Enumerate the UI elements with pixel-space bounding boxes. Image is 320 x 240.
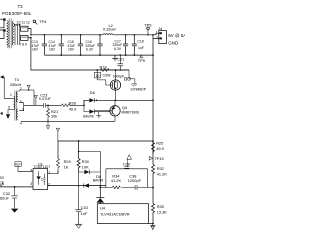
transformer T3 primary winding loops bbox=[0, 19, 4, 38]
svg-text:TLV431ACDBVR: TLV431ACDBVR bbox=[100, 211, 130, 216]
svg-text:SI7848DP: SI7848DP bbox=[131, 87, 147, 91]
transformer T3 secondary pin lines with polarity dots bbox=[15, 26, 20, 46]
T4 pin 6 wire and ground bbox=[8, 110, 14, 114]
resistor R-edge (cut at left) bbox=[0, 176, 5, 184]
svg-text:1000pF: 1000pF bbox=[113, 74, 125, 78]
U3 internal LED bbox=[37, 171, 41, 185]
resistor R28 bbox=[69, 100, 77, 111]
inductor L2 bbox=[103, 23, 116, 32]
svg-text:49.9: 49.9 bbox=[69, 107, 77, 112]
test point TP9 bbox=[140, 55, 143, 58]
compensation network box wires bbox=[100, 169, 153, 188]
shunt regulator U4 TLV431 bbox=[99, 186, 101, 198]
svg-text:POE300F-50L: POE300F-50L bbox=[2, 11, 32, 16]
capacitor C28 with net arrow bbox=[127, 155, 132, 160]
svg-text:C28: C28 bbox=[123, 161, 130, 166]
svg-text:C21: C21 bbox=[117, 57, 124, 62]
U3 internal arrows bbox=[41, 178, 43, 181]
svg-text:10K: 10K bbox=[82, 164, 89, 169]
U3 pin 1 wire to R29 bbox=[48, 171, 58, 174]
D6 lower diode bbox=[84, 100, 110, 114]
svg-text:49.9: 49.9 bbox=[156, 146, 164, 151]
resistor R18 bbox=[100, 64, 107, 69]
svg-text:6.3V: 6.3V bbox=[114, 47, 122, 51]
connector J4 bbox=[158, 26, 163, 31]
resistor R25 bbox=[156, 141, 164, 152]
dual diode D6 bbox=[90, 90, 95, 95]
svg-text:4: 4 bbox=[30, 169, 32, 173]
svg-text:0.47uF: 0.47uF bbox=[39, 96, 52, 101]
resistor R34 bbox=[111, 174, 122, 183]
net arrow near C23 bbox=[34, 95, 37, 98]
svg-text:U4: U4 bbox=[100, 205, 106, 210]
top rail VOUT bbox=[31, 33, 159, 35]
svg-text:R32: R32 bbox=[157, 166, 164, 171]
junction dots top rail bbox=[30, 34, 154, 36]
capacitor C38 bbox=[128, 174, 142, 183]
svg-text:R35: R35 bbox=[157, 204, 164, 209]
svg-text:0.5W: 0.5W bbox=[103, 73, 112, 77]
svg-text:10k: 10k bbox=[51, 114, 57, 119]
test point TP15 bbox=[149, 156, 152, 160]
svg-text:16V: 16V bbox=[68, 48, 75, 52]
svg-text:T3: T3 bbox=[18, 4, 24, 9]
junction dot R21 top bbox=[47, 104, 49, 106]
bottom rail RTN bbox=[44, 54, 153, 56]
svg-text:5: 5 bbox=[20, 100, 22, 104]
T4 right winding lower (pins 3-4) bbox=[17, 109, 18, 119]
transformer T3 primary winding arcs bbox=[7, 21, 8, 48]
junction dot node A bbox=[96, 69, 98, 71]
optocoupler U3 bbox=[33, 163, 50, 170]
transistor Q4 PNP bbox=[110, 106, 120, 116]
transformer T4 core bbox=[15, 91, 17, 121]
T4 pin 1 wire to left edge arrow bbox=[2, 77, 14, 98]
U3 pin 2 wire (feedback node) bbox=[48, 185, 106, 187]
svg-text:16V: 16V bbox=[49, 48, 56, 52]
resistor R21 bbox=[51, 109, 58, 119]
transformer T3 core bbox=[9, 19, 11, 49]
svg-text:1: 1 bbox=[156, 30, 158, 34]
transformer T3 primary polarity dots bbox=[3, 18, 5, 31]
svg-text:TP5: TP5 bbox=[144, 22, 151, 27]
svg-text:C18: C18 bbox=[137, 40, 143, 44]
svg-text:6.3V: 6.3V bbox=[86, 48, 94, 52]
ground symbol on bottom rail bbox=[112, 55, 117, 58]
junction dot R30 top bbox=[78, 140, 80, 142]
svg-text:2: 2 bbox=[20, 87, 22, 91]
svg-text:GND: GND bbox=[168, 41, 179, 46]
R21 ground arrow bbox=[46, 121, 49, 129]
junction dot D6 branch bbox=[83, 104, 85, 106]
U3 pin 4 wire to REF flag bbox=[18, 166, 33, 171]
svg-text:330uH: 330uH bbox=[10, 82, 22, 87]
svg-text:1200pF: 1200pF bbox=[128, 178, 142, 183]
capacitor C15 bbox=[68, 40, 76, 52]
svg-text:R29: R29 bbox=[64, 159, 71, 164]
svg-text:4: 4 bbox=[20, 121, 22, 125]
svg-text:Q3: Q3 bbox=[132, 81, 137, 86]
D6 upper diode bbox=[84, 98, 97, 105]
ground under R35 bbox=[150, 224, 156, 230]
T4 pin labels bbox=[8, 87, 24, 125]
svg-text:0.33uH: 0.33uH bbox=[103, 27, 116, 32]
Q4 collector wire to T4 pin 4 bbox=[21, 120, 115, 122]
T3 pin group box upper (pins 10-12) bbox=[21, 26, 28, 31]
svg-text:7 8 9: 7 8 9 bbox=[19, 43, 27, 47]
capacitor C13 bbox=[32, 40, 40, 52]
capacitor C21 bbox=[117, 57, 124, 62]
transistor Q3 MOSFET bbox=[110, 80, 120, 90]
resistor R32 bbox=[157, 166, 168, 177]
svg-text:16V: 16V bbox=[32, 48, 39, 52]
resistor R30 bbox=[82, 159, 90, 170]
ground under D6/Q4 base bbox=[96, 112, 101, 116]
capacitor C18 bbox=[137, 40, 143, 51]
transformer T4 labels bbox=[10, 77, 22, 87]
test point TP5 bbox=[144, 22, 151, 27]
U3 internal phototransistor bbox=[43, 174, 45, 185]
wire R32 to R35 bbox=[152, 188, 154, 204]
svg-text:5V @ 5A: 5V @ 5A bbox=[168, 33, 185, 38]
R18 value box bbox=[94, 72, 100, 78]
svg-text:1K: 1K bbox=[64, 164, 69, 169]
svg-text:13.3K: 13.3K bbox=[157, 209, 168, 214]
capacitor C33 branch bbox=[81, 205, 88, 216]
svg-text:C33: C33 bbox=[81, 205, 88, 210]
svg-text:41.2K: 41.2K bbox=[157, 171, 168, 176]
T4 pin 2 net bbox=[19, 90, 34, 105]
U3 pin 3 wire to left edge bbox=[0, 186, 33, 188]
T3 pins 7 8 9 label bbox=[19, 43, 27, 47]
dual diode D8 bbox=[93, 174, 103, 183]
snubber wire end / Q3 label leader bbox=[129, 70, 135, 84]
T3 pin group box lower (pins 7-9) bbox=[21, 35, 28, 40]
svg-text:10 11 12: 10 11 12 bbox=[17, 21, 30, 25]
capacitor C17 bbox=[113, 39, 123, 51]
feedback sense line (right column) bbox=[152, 35, 154, 165]
bias net wire to R29/R25 bbox=[58, 140, 153, 142]
junction dot C32 bbox=[14, 186, 16, 188]
svg-text:Q4: Q4 bbox=[122, 105, 128, 110]
svg-text:R25: R25 bbox=[156, 141, 163, 146]
U4 anode wire to ground bbox=[149, 223, 153, 225]
T4 right winding upper (pins 2-5) bbox=[17, 92, 18, 102]
C32 ground arrow bbox=[11, 209, 18, 213]
svg-text:1: 1 bbox=[48, 171, 50, 175]
svg-text:6: 6 bbox=[8, 106, 10, 110]
svg-text:82uF: 82uF bbox=[0, 196, 9, 201]
svg-text:TP4: TP4 bbox=[39, 19, 47, 24]
svg-text:BAV99: BAV99 bbox=[93, 179, 103, 183]
svg-text:MMBT3906: MMBT3906 bbox=[122, 111, 140, 115]
Q3 source / Q4 emitter node wire bbox=[97, 99, 153, 101]
svg-text:TP9: TP9 bbox=[138, 58, 145, 63]
T4 pins 5/3 bus bbox=[19, 103, 43, 111]
svg-text:R30: R30 bbox=[82, 159, 90, 164]
svg-text:TP15: TP15 bbox=[154, 156, 163, 161]
svg-text:R18: R18 bbox=[100, 64, 107, 69]
REF net flag bbox=[15, 162, 21, 167]
capacitor C16 bbox=[86, 40, 96, 52]
capacitor C23 bbox=[39, 92, 52, 101]
svg-text:REF: REF bbox=[15, 162, 21, 166]
test point TP4 bbox=[33, 20, 36, 23]
transformer T3 secondary winding arcs bbox=[12, 21, 13, 45]
U4 box bbox=[97, 204, 148, 224]
capacitor C32 bbox=[0, 191, 10, 201]
svg-text:3: 3 bbox=[30, 182, 32, 186]
T3 pins 10 11 12 label bbox=[17, 21, 30, 25]
capacitor C14 bbox=[49, 40, 57, 52]
cut net arrow at left edge bbox=[0, 112, 3, 115]
svg-text:D6: D6 bbox=[90, 90, 95, 95]
R30 parallel tap wire bbox=[79, 152, 101, 173]
svg-text:1uF: 1uF bbox=[138, 46, 144, 50]
svg-text:1: 1 bbox=[10, 93, 12, 97]
svg-text:R28: R28 bbox=[69, 100, 76, 105]
svg-text:41.2K: 41.2K bbox=[111, 178, 122, 183]
J4 pin2 wire to GND bbox=[153, 38, 159, 40]
transformer T3 label bbox=[2, 4, 32, 16]
output labels 5V / GND bbox=[168, 33, 186, 46]
wire from T3 upper box to top rail bbox=[28, 29, 31, 35]
resistor R29 bbox=[64, 159, 71, 170]
net arrow above R29 bbox=[56, 128, 59, 131]
junction dot lower box bbox=[30, 37, 32, 39]
wire from T3 lower box to snubber (node A) bbox=[28, 38, 129, 70]
svg-text:10: 10 bbox=[96, 74, 100, 78]
svg-text:BAV99: BAV99 bbox=[83, 115, 93, 119]
svg-text:1uF: 1uF bbox=[81, 211, 88, 216]
T4 left winding bbox=[14, 97, 15, 110]
resistor R35 bbox=[157, 204, 168, 215]
